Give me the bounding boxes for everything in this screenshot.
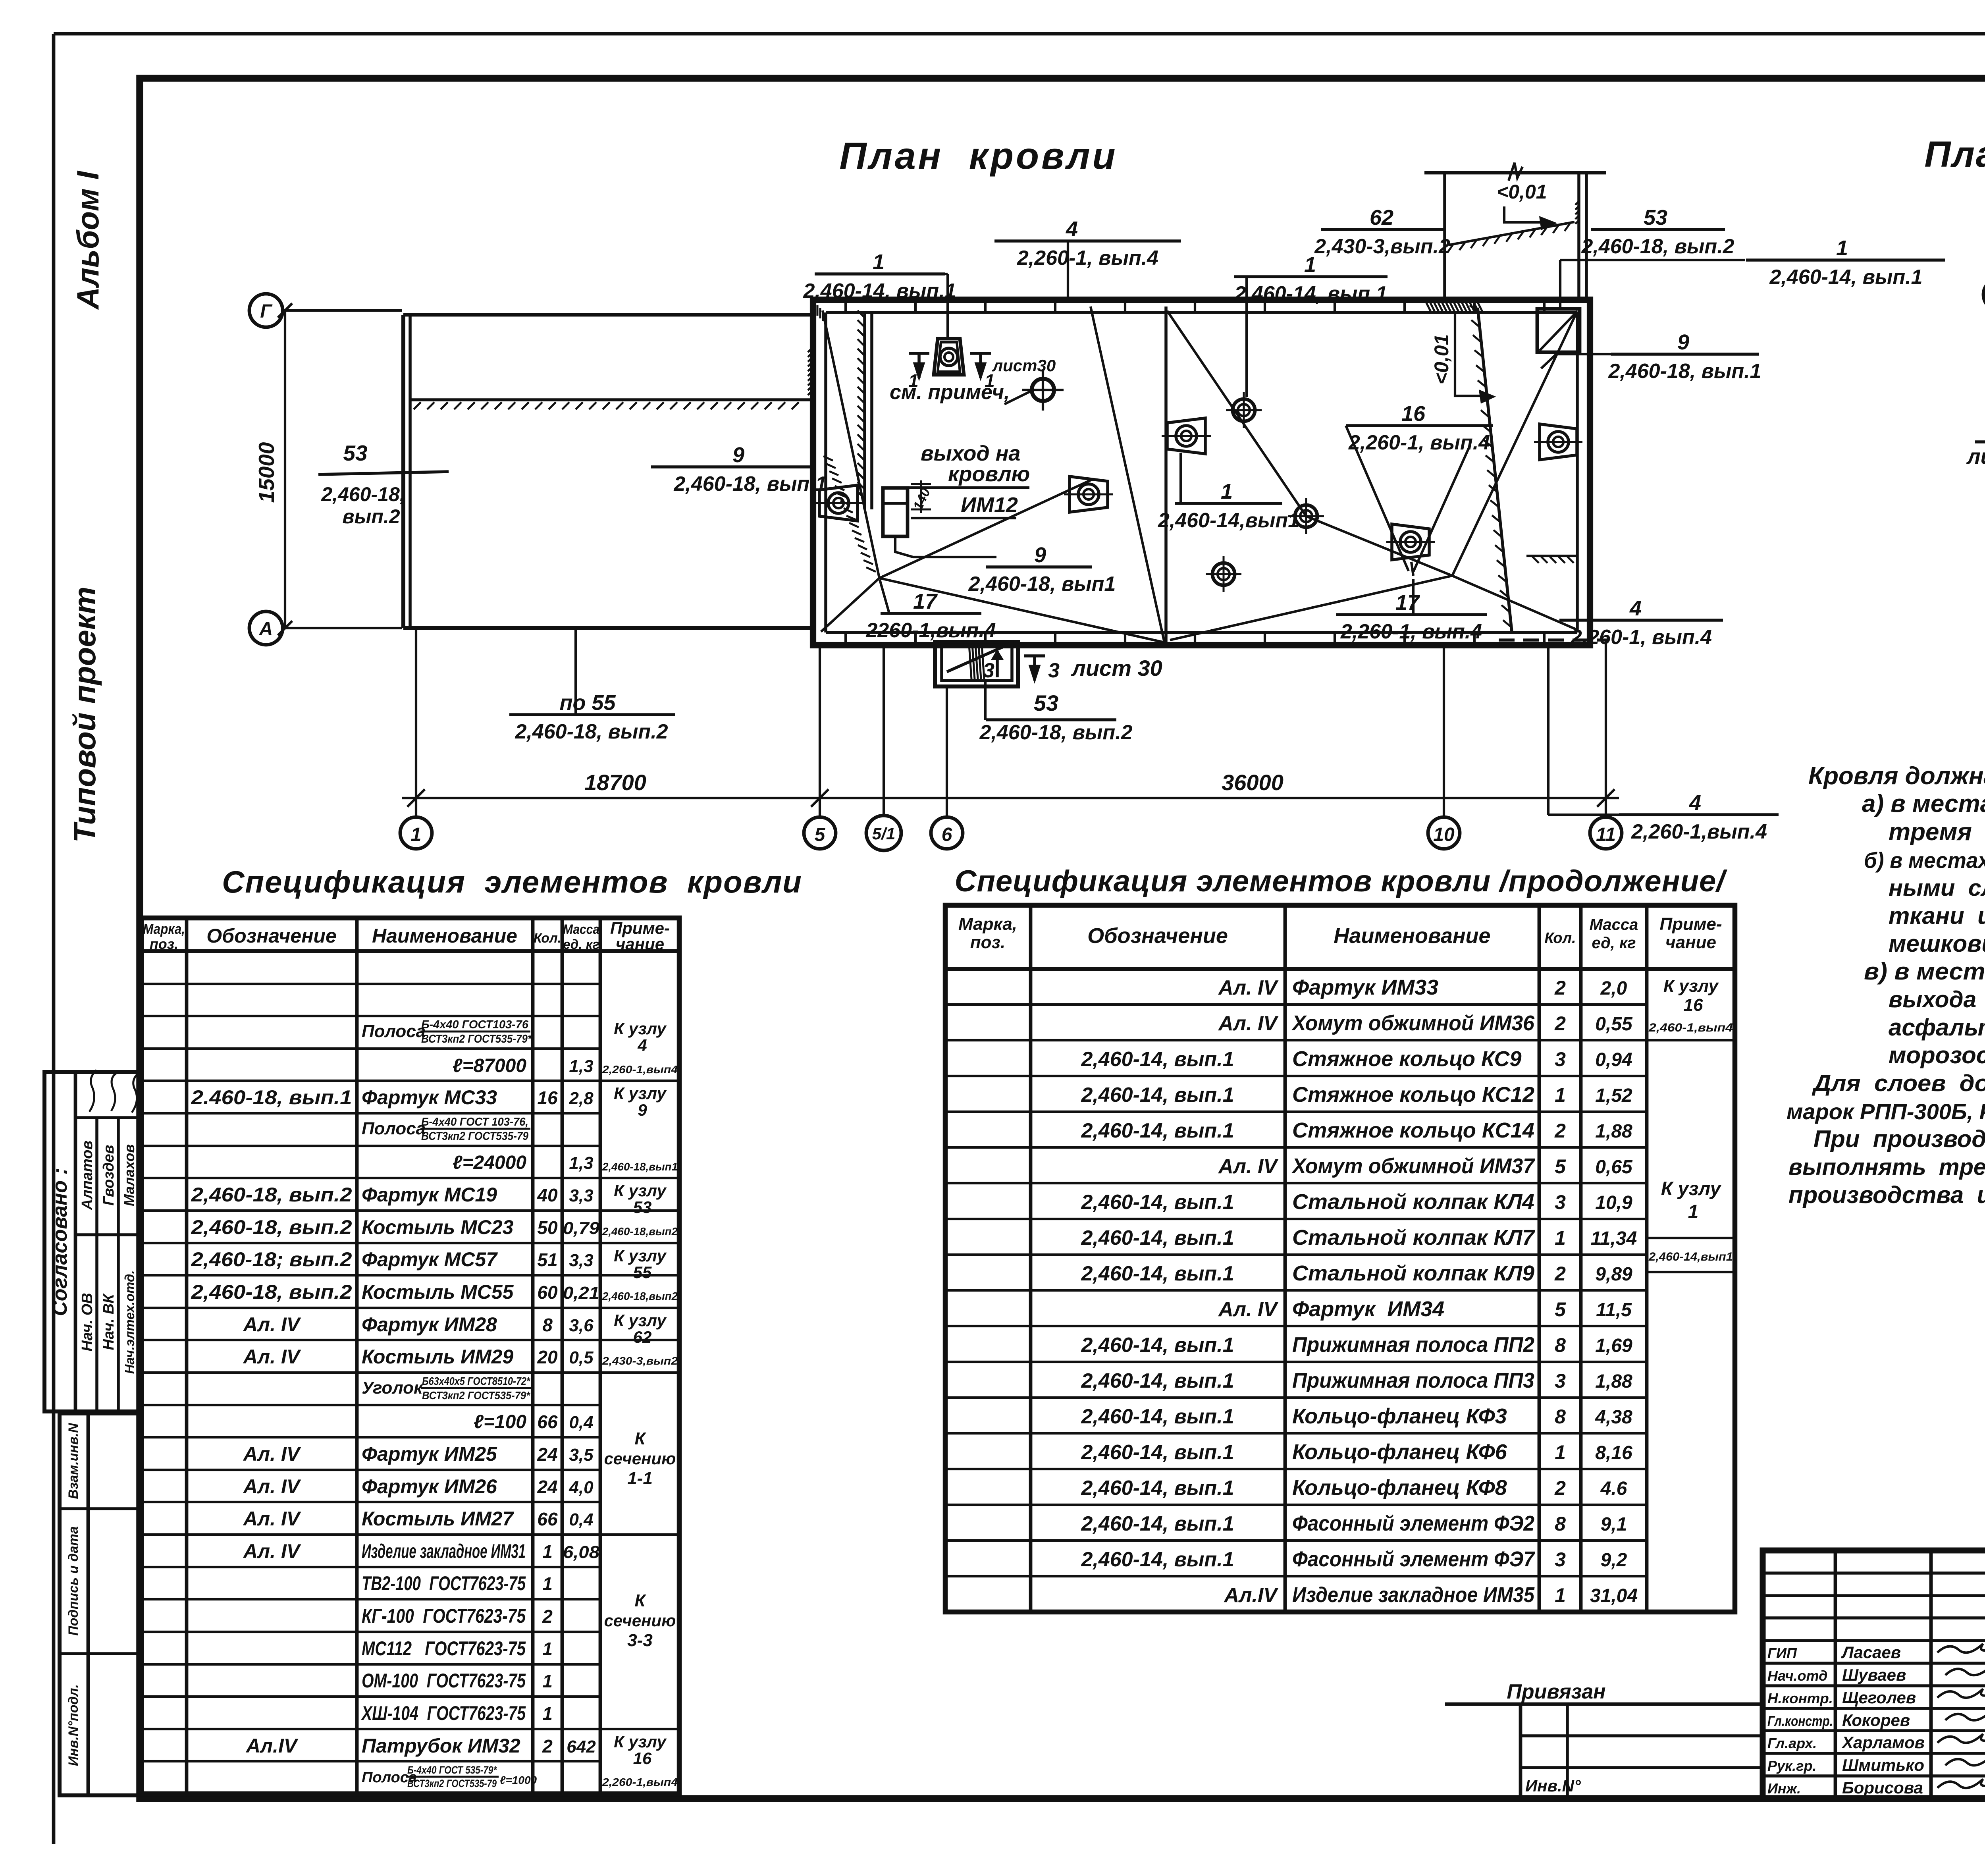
svg-text:2,0: 2,0 [1600, 978, 1627, 999]
dim ticks [407, 789, 425, 807]
svg-text:2: 2 [1554, 1477, 1566, 1499]
svg-text:Кокорев: Кокорев [1842, 1711, 1910, 1729]
svg-text:Прижимная полоса ПП2: Прижимная полоса ПП2 [1292, 1333, 1534, 1357]
svg-text:2,460-14, вып.1: 2,460-14, вып.1 [1081, 1405, 1234, 1428]
svg-text:поз.: поз. [970, 933, 1005, 952]
svg-text:2,260-1, вып.4: 2,260-1, вып.4 [1340, 620, 1482, 643]
svg-text:План выхода на кровлю: План выхода на кровлю [1924, 134, 1985, 175]
svg-text:чание: чание [1665, 933, 1716, 952]
svg-text:асфальтобетона толщиной 30мм: асфальтобетона толщиной 30мм ( марка по [1889, 1014, 1985, 1041]
svg-text:Ал. IV: Ал. IV [243, 1313, 301, 1336]
svg-text:Инж.: Инж. [1767, 1780, 1801, 1797]
svg-text:31,04: 31,04 [1590, 1585, 1638, 1606]
svg-text:К узлу: К узлу [614, 1311, 667, 1330]
svg-text:Б63х40х5 ГОСТ8510-72*: Б63х40х5 ГОСТ8510-72* [422, 1375, 530, 1387]
svg-text:9,2: 9,2 [1601, 1550, 1627, 1571]
svg-text:1,3: 1,3 [569, 1057, 593, 1076]
svg-text:2,460-14, вып.1: 2,460-14, вып.1 [1081, 1191, 1234, 1214]
svg-text:б) в местах установки водост: б) в местах установки водосточных вороно… [1864, 848, 1985, 873]
svg-text:Полоса: Полоса [362, 1022, 426, 1041]
svg-text:ВСТ3кп2 ГОСТ535-79*: ВСТ3кп2 ГОСТ535-79* [422, 1389, 530, 1402]
svg-text:К узлу: К узлу [614, 1181, 667, 1200]
svg-text:Г: Г [260, 301, 273, 322]
svg-text:4: 4 [1689, 791, 1701, 815]
svg-text:А: А [259, 619, 273, 640]
svg-text:2,430-3,вып2: 2,430-3,вып2 [602, 1355, 678, 1367]
svg-text:Б-4х40 ГОСТ 103-76,: Б-4х40 ГОСТ 103-76, [421, 1116, 528, 1128]
svg-text:Гл.арх.: Гл.арх. [1767, 1735, 1817, 1751]
svg-text:Малахов: Малахов [121, 1144, 137, 1206]
exit leader polyline [895, 536, 996, 557]
svg-text:Инв.N°подл.: Инв.N°подл. [66, 1684, 81, 1766]
svg-text:8: 8 [1555, 1334, 1566, 1356]
svg-text:Приме-: Приме- [1659, 914, 1722, 934]
svg-text:Гвоздев: Гвоздев [100, 1145, 117, 1205]
svg-text:2: 2 [1554, 1120, 1566, 1142]
svg-text:см. примеч,: см. примеч, [890, 381, 1010, 404]
svg-text:Хомут обжимной ИМ36: Хомут обжимной ИМ36 [1291, 1011, 1535, 1035]
svg-text:2,460-14, вып.1: 2,460-14, вып.1 [1234, 282, 1387, 305]
svg-text:К узлу: К узлу [614, 1732, 667, 1751]
svg-text:1: 1 [1555, 1584, 1566, 1606]
svg-text:4: 4 [637, 1036, 647, 1055]
svg-text:1: 1 [1555, 1084, 1566, 1106]
svg-text:ИМ12: ИМ12 [961, 493, 1018, 517]
svg-text:Нач. ОВ: Нач. ОВ [79, 1293, 96, 1351]
approval stamp table (Soglasovano) [44, 1072, 140, 1411]
svg-text:2,460-14,вып1: 2,460-14,вып1 [1648, 1250, 1733, 1263]
svg-text:2,460-14, вып.1: 2,460-14, вып.1 [1081, 1084, 1234, 1107]
svg-text:2,460-18, вып.2: 2,460-18, вып.2 [515, 720, 668, 743]
svg-text:8: 8 [1555, 1406, 1566, 1428]
svg-text:2,460-14, вып.1: 2,460-14, вып.1 [1081, 1119, 1234, 1142]
svg-text:по 55: по 55 [559, 691, 616, 715]
svg-text:2,260-1,вып4: 2,260-1,вып4 [602, 1063, 678, 1076]
svg-text:Согласовано :: Согласовано : [48, 1168, 71, 1316]
svg-text:Фартук ИМ25: Фартук ИМ25 [362, 1443, 497, 1465]
svg-text:МС112 ГОСТ7623-75: МС112 ГОСТ7623-75 [362, 1637, 526, 1660]
svg-text:2,460-14, вып.1: 2,460-14, вып.1 [1081, 1548, 1234, 1571]
exit shaft box below plan [935, 642, 1018, 686]
svg-text:2,460-14, вып.1: 2,460-14, вып.1 [1081, 1512, 1234, 1535]
svg-text:выход на: выход на [921, 442, 1020, 465]
svg-text:К узлу: К узлу [614, 1019, 667, 1038]
svg-text:ТВ2-100 ГОСТ7623-75: ТВ2-100 ГОСТ7623-75 [362, 1572, 526, 1595]
svg-text:Кольцо-фланец КФ3: Кольцо-фланец КФ3 [1292, 1404, 1507, 1428]
svg-text:К узлу: К узлу [614, 1246, 667, 1265]
svg-text:Стяжное кольцо КС14: Стяжное кольцо КС14 [1292, 1118, 1534, 1142]
svg-text:2,460-18, вып.2: 2,460-18, вып.2 [979, 721, 1132, 744]
svg-text:Ал. IV: Ал. IV [243, 1475, 301, 1498]
svg-text:9,1: 9,1 [1601, 1514, 1627, 1535]
svg-text:К узлу: К узлу [614, 1084, 667, 1103]
wall funnel at right wall [1540, 424, 1577, 460]
inventory stamp strips (Vzam inv N, Podpis i data, Inv N podl) [60, 1413, 140, 1795]
svg-text:Фасонный элемент ФЭ2: Фасонный элемент ФЭ2 [1292, 1512, 1534, 1535]
svg-text:<0,01: <0,01 [1430, 334, 1453, 385]
svg-text:ВСТ3кп2 ГОСТ535-79*: ВСТ3кп2 ГОСТ535-79* [421, 1033, 532, 1045]
svg-text:1,88: 1,88 [1595, 1371, 1632, 1392]
svg-text:2,460-14,вып1: 2,460-14,вып1 [1158, 509, 1299, 532]
svg-text:Ал. IV: Ал. IV [243, 1540, 301, 1562]
diagonal bottom-left of right bay to low point [1170, 576, 1452, 640]
svg-text:ХШ-104 ГОСТ7623-75: ХШ-104 ГОСТ7623-75 [361, 1702, 526, 1724]
svg-text:53: 53 [1644, 206, 1667, 229]
svg-text:1,52: 1,52 [1595, 1085, 1632, 1106]
svg-text:Борисова: Борисова [1842, 1778, 1923, 1797]
funnel above low point [1392, 524, 1429, 560]
svg-text:0,65: 0,65 [1595, 1157, 1633, 1178]
svg-text:16: 16 [1401, 402, 1426, 426]
svg-text:морозостойкости - 100).: морозостойкости - 100). [1889, 1042, 1985, 1068]
svg-text:66: 66 [537, 1509, 558, 1529]
svg-text:2,460-18, вып.1: 2,460-18, вып.1 [673, 472, 827, 496]
svg-text:3,6: 3,6 [569, 1316, 594, 1335]
svg-text:2: 2 [1554, 1263, 1566, 1285]
svg-text:16: 16 [1684, 995, 1703, 1015]
title block outer frame [1763, 1550, 1985, 1799]
svg-text:0,4: 0,4 [569, 1510, 593, 1529]
vertical dimension 15000 [284, 310, 286, 628]
svg-text:Прижимная полоса ПП3: Прижимная полоса ПП3 [1292, 1369, 1534, 1392]
svg-text:53: 53 [633, 1198, 652, 1217]
svg-text:4,0: 4,0 [569, 1478, 594, 1497]
main building outer walls [813, 300, 1590, 645]
roof step hatched line in low building [410, 398, 813, 401]
svg-text:2,460-14, вып.1: 2,460-14, вып.1 [803, 280, 956, 303]
svg-text:17: 17 [1395, 591, 1420, 615]
svg-text:11: 11 [1596, 824, 1616, 845]
svg-text:2: 2 [542, 1736, 553, 1756]
svg-text:60: 60 [537, 1282, 558, 1303]
signature squiggles in stamp [89, 1070, 96, 1112]
svg-text:лист30: лист30 [992, 356, 1056, 375]
svg-text:1,69: 1,69 [1595, 1335, 1632, 1356]
svg-text:2260-1,вып.4: 2260-1,вып.4 [865, 619, 996, 642]
svg-text:производства и приемки рабо: производства и приемки работ " [1788, 1182, 1985, 1208]
svg-text:3,3: 3,3 [569, 1186, 593, 1205]
svg-text:Типовой проект: Типовой проект [67, 587, 102, 843]
svg-text:1: 1 [1221, 480, 1233, 503]
svg-text:3: 3 [1048, 659, 1060, 682]
svg-text:ГИП: ГИП [1767, 1645, 1797, 1661]
svg-text:Костыль МС23: Костыль МС23 [362, 1216, 514, 1238]
privyazan mini table [1445, 1702, 1763, 1706]
svg-text:Наименование: Наименование [372, 925, 517, 947]
svg-text:1: 1 [1555, 1227, 1566, 1249]
svg-text:1: 1 [542, 1703, 553, 1724]
svg-text:2,460-14, вып.1: 2,460-14, вып.1 [1081, 1441, 1234, 1464]
svg-text:Обозначение: Обозначение [206, 925, 337, 947]
svg-text:кровлю: кровлю [948, 462, 1030, 486]
svg-text:3: 3 [1555, 1191, 1566, 1213]
svg-text:Н.контр.: Н.контр. [1767, 1690, 1833, 1706]
svg-text:Стальной колпак КЛ7: Стальной колпак КЛ7 [1292, 1226, 1536, 1249]
svg-text:62: 62 [1370, 206, 1393, 229]
svg-text:4: 4 [1066, 217, 1078, 241]
svg-text:Стяжное кольцо КС9: Стяжное кольцо КС9 [1292, 1047, 1522, 1071]
svg-text:Б-4х40 ГОСТ103-76: Б-4х40 ГОСТ103-76 [421, 1018, 529, 1031]
svg-text:17: 17 [913, 590, 938, 613]
svg-text:Щеголев: Щеголев [1842, 1688, 1916, 1707]
svg-text:ными слоями, армированными д: ными слоями, армированными двумя слоями … [1889, 875, 1985, 901]
svg-text:Кольцо-фланец КФ8: Кольцо-фланец КФ8 [1292, 1476, 1507, 1500]
svg-text:20: 20 [537, 1347, 558, 1367]
svg-text:2,460-18; вып.2: 2,460-18; вып.2 [191, 1248, 352, 1271]
svg-text:10,9: 10,9 [1595, 1192, 1632, 1213]
svg-text:Костыль ИМ27: Костыль ИМ27 [362, 1508, 514, 1530]
svg-text:51: 51 [537, 1249, 557, 1270]
svg-text:Изделие закладное ИМ31: Изделие закладное ИМ31 [362, 1540, 526, 1562]
svg-text:Фартук МС57: Фартук МС57 [362, 1248, 498, 1271]
svg-text:ед, кг: ед, кг [1592, 934, 1636, 952]
svg-text:Кровля должна быть усилена :: Кровля должна быть усилена : [1808, 762, 1985, 790]
svg-text:2.460-18, вып.1: 2.460-18, вып.1 [191, 1086, 352, 1109]
svg-text:2,460-18, вып.2: 2,460-18, вып.2 [191, 1184, 352, 1206]
svg-text:Рук.гр.: Рук.гр. [1767, 1758, 1817, 1774]
steep diagonal to bottom col6 [1091, 307, 1164, 642]
svg-text:Фартук МС33: Фартук МС33 [362, 1086, 497, 1109]
interior hatched partition wall at col 5/1 [863, 314, 866, 509]
specification table 1 grid [141, 918, 679, 1794]
svg-text:2,460-14, вып.1: 2,460-14, вып.1 [1769, 266, 1922, 289]
svg-text:сечению: сечению [604, 1449, 676, 1468]
axis circle 10 [1428, 817, 1460, 849]
svg-text:Кол.: Кол. [1544, 930, 1576, 947]
svg-text:тремя слоями рубероида ;: тремя слоями рубероида ; [1889, 818, 1985, 846]
svg-text:2,460-14, вып.1: 2,460-14, вып.1 [1081, 1048, 1234, 1071]
svg-text:ℓ=87000: ℓ=87000 [453, 1055, 527, 1076]
svg-text:ОМ-100 ГОСТ7623-75: ОМ-100 ГОСТ7623-75 [362, 1670, 526, 1692]
funnel circle right bay upper [1233, 399, 1255, 421]
svg-text:16: 16 [633, 1749, 652, 1768]
svg-text:2,460-14, вып.1: 2,460-14, вып.1 [1081, 1369, 1234, 1392]
svg-text:ед, кг: ед, кг [563, 937, 599, 952]
plain drain circle see note [1032, 379, 1054, 401]
svg-text:2: 2 [542, 1606, 553, 1627]
svg-text:Ал. IV: Ал. IV [243, 1346, 301, 1368]
svg-text:1: 1 [1836, 236, 1848, 260]
svg-text:2,460-18, вып.2: 2,460-18, вып.2 [1581, 235, 1734, 258]
svg-text:1: 1 [1688, 1201, 1699, 1222]
interior vertical roof line at col 6 [1164, 307, 1168, 642]
svg-text:6,08: 6,08 [563, 1542, 600, 1562]
svg-text:1: 1 [542, 1541, 553, 1562]
svg-text:К: К [634, 1591, 646, 1610]
svg-text:0,5: 0,5 [569, 1348, 594, 1367]
svg-text:2,460-18,вып2: 2,460-18,вып2 [602, 1225, 678, 1238]
svg-text:2,460-18, вып.1: 2,460-18, вып.1 [1608, 360, 1761, 383]
svg-text:Марка,: Марка, [958, 914, 1017, 934]
svg-text:2,260-1, вып.4: 2,260-1, вып.4 [1570, 626, 1712, 649]
axis B circle [1983, 279, 1985, 310]
roof exit hatch box in left bay [883, 488, 908, 536]
svg-text:К: К [634, 1429, 646, 1448]
svg-text:1: 1 [542, 1671, 553, 1691]
svg-text:ткани или двумя слоями рубе: ткани или двумя слоями рубероида и слоем [1889, 902, 1985, 929]
svg-text:2,460-18,: 2,460-18, [321, 483, 405, 505]
svg-text:Масса: Масса [563, 922, 599, 937]
svg-text:Кол.: Кол. [534, 931, 561, 946]
svg-text:Альбом I: Альбом I [70, 171, 105, 310]
svg-text:выхода на кровлю - защитны: выхода на кровлю - защитным слоем из пес… [1889, 987, 1985, 1012]
svg-text:Ал.IV: Ал.IV [1224, 1584, 1279, 1607]
wall funnel left bay west [819, 485, 858, 521]
svg-text:Фасонный элемент ФЭ7: Фасонный элемент ФЭ7 [1292, 1547, 1536, 1571]
axis A circle [249, 611, 283, 645]
T arrow marks beside vent [909, 352, 929, 355]
svg-text:50: 50 [537, 1217, 558, 1238]
svg-text:лист 30: лист 30 [1071, 656, 1162, 681]
svg-text:3-3: 3-3 [627, 1631, 653, 1650]
svg-text:2,430-3,вып.2: 2,430-3,вып.2 [1314, 235, 1450, 258]
svg-text:24: 24 [537, 1477, 557, 1497]
hatch wedge in left bay [823, 456, 833, 461]
svg-text:Ал. IV: Ал. IV [1218, 1012, 1279, 1035]
svg-text:3: 3 [983, 659, 994, 682]
svg-text:Наименование: Наименование [1334, 924, 1490, 948]
svg-text:2,260-1, вып.4: 2,260-1, вып.4 [1017, 247, 1158, 270]
svg-text:1: 1 [542, 1639, 553, 1659]
svg-text:40: 40 [537, 1185, 558, 1205]
svg-text:Фартук МС19: Фартук МС19 [362, 1184, 497, 1206]
svg-text:4,38: 4,38 [1595, 1407, 1632, 1428]
wall funnel at col6 line [1167, 418, 1205, 454]
svg-text:Спецификация элементов кровл: Спецификация элементов кровли [222, 864, 802, 899]
svg-text:2: 2 [1554, 977, 1566, 999]
svg-text:2,460-14, вып.1: 2,460-14, вып.1 [1081, 1477, 1234, 1500]
funnel circle right bay lowest [1212, 563, 1235, 585]
svg-text:Нач.отд: Нач.отд [1767, 1668, 1827, 1684]
svg-text:Ал.IV: Ал.IV [245, 1735, 299, 1757]
svg-text:Стальной колпак КЛ9: Стальной колпак КЛ9 [1292, 1261, 1534, 1285]
svg-text:Хомут обжимной ИМ37: Хомут обжимной ИМ37 [1291, 1154, 1536, 1178]
panel joint ticks top wall [844, 300, 847, 312]
diagonal low point to bottom-right corner [1452, 576, 1576, 629]
svg-text:3: 3 [1555, 1548, 1566, 1571]
svg-text:марок РПП-300Б, РКК-350Б и мас: марок РПП-300Б, РКК-350Б и мастику МБК-Г… [1786, 1099, 1985, 1124]
svg-text:Патрубок ИМ32: Патрубок ИМ32 [362, 1735, 520, 1757]
axis circle 5/1 [866, 816, 901, 850]
svg-text:Алпатов: Алпатов [79, 1141, 96, 1211]
svg-text:Б-4х40 ГОСТ 535-79*: Б-4х40 ГОСТ 535-79* [407, 1764, 497, 1776]
svg-text:Подпись и дата: Подпись и дата [66, 1526, 81, 1636]
svg-text:2,260-1,вып.4: 2,260-1,вып.4 [1631, 820, 1767, 843]
svg-text:2,460-1,вып4: 2,460-1,вып4 [1648, 1021, 1733, 1034]
axis G circle [249, 294, 283, 327]
wall funnel left bay east [1070, 476, 1108, 512]
low building outline [403, 313, 813, 317]
top-right interior box [1537, 309, 1580, 352]
svg-text:Костыль МС55: Костыль МС55 [362, 1281, 514, 1303]
sheet outer thin border [54, 32, 1985, 36]
title block signature columns [1834, 1550, 1837, 1799]
svg-text:2,460-18, вып.2: 2,460-18, вып.2 [191, 1281, 352, 1303]
svg-text:Ласаев: Ласаев [1841, 1643, 1901, 1662]
svg-text:сечению: сечению [604, 1611, 676, 1630]
axis circle 11 [1590, 817, 1622, 849]
flared roof vent top of left bay [934, 339, 964, 375]
specification table 2 grid [945, 905, 1735, 1612]
hatched band on top wall left of channel [1425, 301, 1431, 312]
svg-text:2,460-14, вып.1: 2,460-14, вып.1 [1081, 1262, 1234, 1285]
svg-text:8: 8 [542, 1315, 553, 1335]
svg-text:2: 2 [1554, 1012, 1566, 1035]
svg-text:Марка,: Марка, [143, 921, 185, 937]
svg-text:поз.: поз. [150, 936, 178, 952]
svg-text:66: 66 [537, 1411, 558, 1432]
svg-text:11,34: 11,34 [1591, 1228, 1637, 1249]
diagonal top-right corner to low point [1452, 314, 1576, 576]
valley diagonal left bay 2 [821, 578, 879, 632]
svg-text:3,5: 3,5 [569, 1445, 594, 1465]
svg-text:11,5: 11,5 [1596, 1300, 1632, 1321]
svg-text:При производстве работ по у: При производстве работ по устройству кро… [1813, 1126, 1985, 1152]
svg-text:1,3: 1,3 [569, 1153, 593, 1173]
svg-text:5: 5 [1555, 1298, 1566, 1321]
svg-text:Ал. IV: Ал. IV [1218, 976, 1279, 999]
svg-text:выполнять требования СНиП Ш-: выполнять требования СНиП Ш-20-74 „ Кров… [1788, 1154, 1985, 1180]
svg-text:53: 53 [343, 441, 367, 465]
small dim 140 at exit [911, 483, 931, 485]
svg-text:Стальной колпак КЛ4: Стальной колпак КЛ4 [1292, 1190, 1534, 1214]
channel above plan between cols 9-10 [1424, 171, 1606, 175]
svg-text:Стяжное кольцо КС12: Стяжное кольцо КС12 [1292, 1083, 1534, 1107]
svg-text:10: 10 [1433, 824, 1455, 845]
svg-text:Взам.инв.N: Взам.инв.N [66, 1423, 81, 1499]
svg-text:К узлу: К узлу [1661, 1178, 1722, 1199]
svg-text:62: 62 [633, 1328, 652, 1346]
title block left row lines [1763, 1571, 1985, 1575]
long valley junction to right [879, 480, 1092, 578]
main dimension line [402, 797, 1619, 799]
svg-text:0,79: 0,79 [563, 1219, 600, 1238]
svg-text:чание: чание [616, 935, 664, 953]
main building inner wall lines (parapet) [826, 311, 1577, 314]
svg-text:53: 53 [1034, 690, 1058, 715]
svg-text:24: 24 [537, 1444, 557, 1465]
svg-text:Изделие закладное ИМ35: Изделие закладное ИМ35 [1292, 1583, 1535, 1607]
funnel circle right bay lower [1295, 505, 1317, 527]
svg-text:Привязан: Привязан [1507, 1680, 1605, 1703]
dashed line below bottom wall right part [1499, 638, 1609, 642]
svg-text:ВСТ3кп2 ГОСТ535-79: ВСТ3кп2 ГОСТ535-79 [407, 1778, 497, 1789]
short riser at low point [1411, 562, 1413, 576]
svg-text:4: 4 [1629, 596, 1642, 620]
svg-text:Ал. IV: Ал. IV [1218, 1155, 1279, 1178]
svg-text:Фартук ИМ33: Фартук ИМ33 [1292, 976, 1438, 999]
svg-text:Фартук ИМ28: Фартук ИМ28 [362, 1313, 497, 1336]
corner hatch top-left of main building [814, 303, 816, 313]
svg-text:2,460-18,вып1: 2,460-18,вып1 [602, 1161, 678, 1173]
svg-text:2,460-18,вып2: 2,460-18,вып2 [602, 1290, 678, 1302]
svg-text:Фартук ИМ26: Фартук ИМ26 [362, 1475, 497, 1498]
svg-text:5: 5 [815, 824, 826, 845]
svg-text:Инв.N°: Инв.N° [1525, 1776, 1581, 1795]
hatched wall segment left wall [808, 345, 815, 352]
svg-text:5: 5 [1555, 1155, 1566, 1178]
svg-text:5/1: 5/1 [872, 824, 895, 843]
svg-text:1: 1 [411, 824, 422, 845]
svg-text:Нач. ВК: Нач. ВК [100, 1293, 117, 1350]
svg-text:в) в местах неорганизованного: в) в местах неорганизованного водостока … [1864, 958, 1985, 985]
svg-text:К узлу: К узлу [1663, 976, 1719, 996]
svg-text:Шуваев: Шуваев [1842, 1666, 1906, 1684]
svg-text:ℓ=100: ℓ=100 [474, 1411, 526, 1433]
svg-text:Масса: Масса [1590, 916, 1638, 933]
svg-text:Нач.элтех.отд.: Нач.элтех.отд. [122, 1270, 137, 1374]
svg-text:<0,01: <0,01 [1497, 181, 1547, 203]
